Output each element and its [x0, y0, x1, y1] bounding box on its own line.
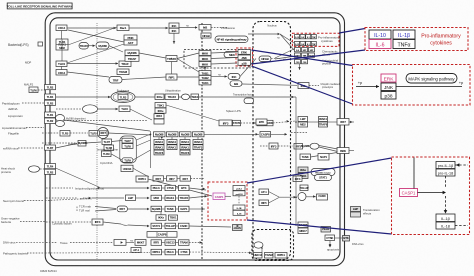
compartment dashed verticals [96, 23, 98, 259]
NFkB pill [227, 39, 229, 41]
y=170 row [298, 167, 308, 173]
ERK/JNK/p38 stack [238, 50, 251, 55]
dashed MAPK cascade box [184, 50, 250, 69]
red highlight box: cytokine genes [292, 33, 339, 46]
TLR4 grid [56, 39, 68, 50]
MKK stack [199, 51, 211, 56]
row 2 chemokines [295, 48, 301, 52]
y=234 wide IRF7 row [147, 232, 177, 238]
red dashed callout box: MAPK signaling [353, 65, 471, 106]
nucleus inner V structure [259, 189, 269, 195]
outer cell border [45, 13, 344, 266]
inner cell border [50, 18, 340, 260]
row y=198 [46, 197, 77, 199]
arrowheads [86, 26, 353, 254]
row y=64 [56, 61, 67, 67]
nucleus crossing arrow [248, 33, 278, 35]
NF-kB signaling pathway pill [215, 36, 248, 43]
red highlight box: ERK/JNK/p38 stack [236, 48, 253, 66]
bottom right boxes [321, 227, 331, 233]
bottom dashed box content [254, 242, 263, 248]
blue callout line: MAPK bottom [252, 66, 353, 104]
red dashed callout box: CASP1 inflammasome [392, 157, 470, 235]
blue callout line: cytokines top [339, 29, 365, 34]
y=217 box pair [156, 215, 166, 221]
red dashed callout box: pro-inflammatory cytokines [365, 28, 468, 51]
row 1 [295, 35, 300, 39]
X crossing lines [68, 27, 117, 45]
row y=123 [219, 120, 232, 126]
TRAM/TRIF [117, 69, 129, 75]
hanging column boxes [154, 140, 164, 145]
LBP ovals [79, 43, 89, 50]
y=157 row [300, 154, 311, 160]
bottom dashed compartment [252, 230, 294, 261]
TAK1 stack [199, 71, 211, 76]
PI3K stack [124, 35, 137, 40]
IRF3 row y=146 [260, 145, 268, 147]
row 3 [295, 60, 301, 64]
TRAF6 / RIP1 [166, 56, 177, 62]
row y=178 chain [136, 170, 149, 177]
title box [7, 3, 72, 9]
nucleus dashed rounded rect [253, 22, 291, 260]
NFkB pills mid [259, 56, 271, 62]
IkB note row [298, 83, 309, 89]
endosome compartment [120, 136, 137, 163]
red highlight box: CASP1 region [208, 182, 247, 220]
row y=28 [56, 25, 67, 31]
row y=72 [56, 70, 67, 76]
blue callout line: CASP1 top [247, 158, 392, 183]
blue callout line: MAPK top [252, 50, 353, 66]
MyD88/TIRAP stack right [125, 50, 139, 56]
main row y=134 : cluster columns [150, 131, 152, 168]
blue callout line: CASP1 bottom [247, 220, 392, 234]
outside-border cluster + text [351, 207, 361, 212]
NFkB row y=122 [256, 119, 267, 125]
y=252 row [151, 249, 162, 255]
row y=188 [46, 187, 73, 189]
lower right column [293, 176, 302, 182]
blue callout line: cytokines bottom [252, 50, 366, 64]
